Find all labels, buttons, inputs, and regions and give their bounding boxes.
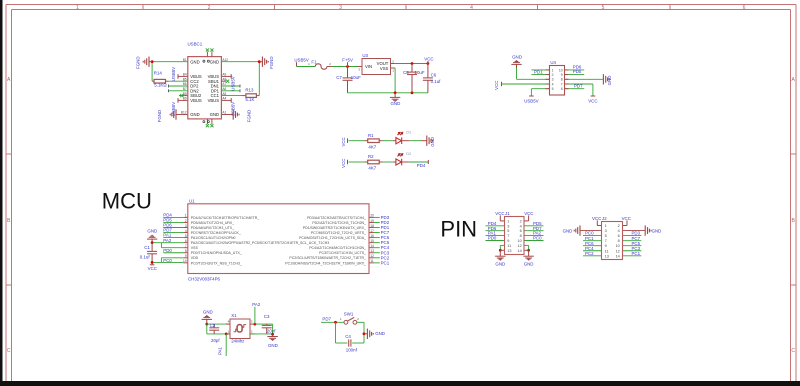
svg-text:14: 14 [370, 244, 374, 248]
svg-text:B4: B4 [183, 73, 187, 77]
svg-text:11: 11 [507, 244, 511, 248]
svg-text:1: 1 [507, 219, 509, 223]
svg-text:GND: GND [512, 54, 522, 59]
svg-text:20pf: 20pf [211, 338, 220, 343]
svg-text:GND: GND [375, 331, 385, 336]
svg-text:4: 4 [185, 229, 187, 233]
svg-text:3: 3 [507, 224, 509, 228]
svg-text:8: 8 [520, 234, 522, 238]
svg-text:4K7: 4K7 [368, 144, 376, 149]
svg-text:9: 9 [561, 73, 563, 77]
svg-text:GND: GND [430, 137, 435, 147]
svg-text:PC7/MISO/T1CH2_T2CH2_URTS_: PC7/MISO/T1CH2_T2CH2_URTS_ [311, 231, 366, 235]
svg-text:U4: U4 [550, 60, 556, 65]
svg-text:FGND: FGND [269, 56, 274, 68]
svg-text:PD4/A7/UCK/T2CH1ETR/OP0/T1CH4E: PD4/A7/UCK/T2CH1ETR/OP0/T1CH4ETR_ [191, 216, 260, 220]
svg-text:2: 2 [618, 224, 620, 228]
svg-text:PA2: PA2 [252, 302, 261, 307]
svg-text:USB5V: USB5V [294, 58, 308, 63]
svg-text:GND: GND [210, 112, 219, 117]
svg-text:C6: C6 [431, 72, 437, 77]
svg-text:VCC: VCC [494, 81, 499, 90]
svg-text:USB5V: USB5V [171, 67, 176, 81]
svg-text:PD1/SWIO/AETR2/T1CH3N/UTX_URX_: PD1/SWIO/AETR2/T1CH3N/UTX_URX_ [303, 226, 366, 230]
svg-text:GND: GND [147, 229, 157, 234]
svg-text:VBUS: VBUS [190, 98, 202, 103]
svg-text:PD7/NRST/T2CH4/OPP1/UCK_: PD7/NRST/T2CH4/OPP1/UCK_ [191, 231, 241, 235]
svg-text:PD4: PD4 [417, 163, 426, 168]
svg-text:4: 4 [520, 224, 522, 228]
svg-text:A5: A5 [222, 92, 226, 96]
svg-text:PC0: PC0 [533, 236, 542, 241]
svg-text:7: 7 [507, 234, 509, 238]
svg-text:SW1: SW1 [344, 312, 354, 317]
svg-text:6: 6 [520, 229, 522, 233]
svg-text:11: 11 [605, 249, 609, 253]
svg-text:A7: A7 [222, 82, 226, 86]
svg-text:5: 5 [605, 234, 607, 238]
svg-text:A8: A8 [222, 77, 226, 81]
svg-text:12: 12 [517, 244, 521, 248]
svg-text:VCC: VCC [495, 211, 504, 216]
svg-text:GND: GND [652, 228, 662, 233]
svg-text:PC3/T1CH3/T1CH1N_UCTS_: PC3/T1CH3/T1CH1N_UCTS_ [319, 251, 366, 255]
svg-text:6: 6 [743, 5, 746, 11]
svg-text:VCC: VCC [424, 56, 433, 61]
svg-text:PC2: PC2 [585, 251, 594, 256]
svg-text:2: 2 [552, 73, 554, 77]
svg-text:VCC: VCC [588, 98, 597, 103]
svg-text:8: 8 [185, 249, 187, 253]
svg-text:GND: GND [210, 59, 219, 64]
svg-text:13: 13 [370, 249, 374, 253]
svg-text:B6: B6 [183, 82, 187, 86]
svg-text:2: 2 [185, 219, 187, 223]
svg-text:VCC: VCC [148, 266, 157, 271]
svg-text:10: 10 [183, 259, 187, 263]
svg-text:3: 3 [552, 78, 554, 82]
svg-text:C3: C3 [264, 314, 270, 319]
svg-text:C8: C8 [403, 70, 409, 75]
svg-text:PC0: PC0 [163, 258, 172, 263]
svg-text:A12: A12 [222, 58, 228, 62]
svg-text:B1: B1 [183, 58, 187, 62]
svg-text:PC0/T2CH3/UTX_NSS_T1CH3_: PC0/T2CH3/UTX_NSS_T1CH3_ [191, 261, 242, 265]
svg-text:B7: B7 [183, 87, 187, 91]
svg-text:10uF: 10uF [351, 75, 361, 80]
svg-text:PA2/OSC0/A0/T1CH2N/OPP0/ASTR2_: PA2/OSC0/A0/T1CH2N/OPP0/ASTR2_PC5/SCK/T1… [191, 241, 329, 245]
svg-text:1: 1 [76, 5, 79, 11]
svg-text:VIN: VIN [365, 64, 372, 69]
svg-text:GND: GND [391, 101, 401, 106]
svg-text:2: 2 [208, 5, 211, 11]
svg-text:PC6/MOSI/T1CH1_T2CH1N_UCTS_SDA: PC6/MOSI/T1CH1_T2CH1N_UCTS_SDA_ [299, 236, 366, 240]
svg-text:2: 2 [520, 219, 522, 223]
svg-text:J2: J2 [602, 216, 607, 221]
svg-text:GND: GND [190, 59, 199, 64]
svg-text:4: 4 [552, 82, 554, 86]
svg-text:5: 5 [552, 87, 554, 91]
svg-text:VSS: VSS [191, 246, 199, 250]
svg-text:0.1uf: 0.1uf [431, 79, 442, 84]
svg-text:USBC1: USBC1 [188, 42, 203, 47]
svg-text:1: 1 [605, 224, 607, 228]
svg-text:5: 5 [185, 234, 187, 238]
svg-text:PA1/OSC1/A1/T1CH2/OPN0: PA1/OSC1/A1/T1CH2/OPN0 [191, 236, 236, 240]
svg-text:PD2/A3/T1CH1/T2CH3_T1CH2N_: PD2/A3/T1CH1/T2CH3_T1CH2N_ [312, 221, 366, 225]
svg-text:PA1: PA1 [218, 346, 223, 355]
svg-text:J1: J1 [505, 211, 510, 216]
svg-text:PD5: PD5 [573, 69, 582, 74]
svg-text:12: 12 [370, 254, 374, 258]
svg-text:16: 16 [370, 234, 374, 238]
svg-text:X1: X1 [231, 313, 237, 318]
svg-text:VCC: VCC [341, 137, 346, 146]
svg-text:PD5/A5/UTX/T2CH4_URX_: PD5/A5/UTX/T2CH4_URX_ [191, 221, 234, 225]
svg-text:7: 7 [561, 82, 563, 86]
svg-text:17: 17 [370, 229, 374, 233]
svg-text:5.1K: 5.1K [245, 97, 254, 102]
svg-text:10: 10 [517, 239, 521, 243]
svg-text:A4: A4 [222, 97, 226, 101]
svg-text:1: 1 [185, 214, 187, 218]
svg-text:MCU: MCU [102, 188, 152, 213]
svg-text:GND: GND [495, 262, 505, 267]
svg-text:13: 13 [605, 254, 609, 258]
svg-text:D1: D1 [406, 131, 411, 135]
svg-text:PIN: PIN [440, 216, 477, 241]
svg-text:0.1uf: 0.1uf [140, 254, 151, 259]
svg-text:19: 19 [370, 219, 374, 223]
svg-text:12: 12 [616, 249, 620, 253]
svg-text:7: 7 [185, 244, 187, 248]
svg-text:7: 7 [605, 239, 607, 243]
svg-text:PD0: PD0 [488, 236, 497, 241]
svg-text:3: 3 [605, 229, 607, 233]
svg-text:PA2: PA2 [163, 238, 172, 243]
svg-text:9: 9 [185, 254, 187, 258]
svg-text:C4: C4 [345, 334, 351, 339]
svg-text:C: C [791, 348, 795, 354]
svg-text:10: 10 [616, 244, 620, 248]
svg-text:A6: A6 [222, 87, 226, 91]
svg-text:8: 8 [618, 239, 620, 243]
svg-text:1: 1 [552, 68, 554, 72]
svg-text:PD0: PD0 [163, 248, 172, 253]
svg-text:11: 11 [370, 259, 374, 263]
svg-text:U1: U1 [189, 199, 195, 204]
svg-text:VCC: VCC [622, 216, 631, 221]
svg-text:FGND: FGND [157, 110, 162, 122]
svg-text:4K7: 4K7 [368, 166, 376, 171]
svg-text:R14: R14 [154, 71, 163, 76]
svg-text:3: 3 [339, 5, 342, 11]
svg-text:B8: B8 [183, 92, 187, 96]
svg-text:8: 8 [561, 78, 563, 82]
svg-text:C1: C1 [144, 245, 150, 250]
svg-text:PC1: PC1 [632, 251, 641, 256]
svg-text:CH32V003F4P6: CH32V003F4P6 [188, 277, 221, 282]
svg-text:14: 14 [616, 254, 620, 258]
svg-text:PC4/A2/T1CH4/MCO/T1CH1CH2N_: PC4/A2/T1CH4/MCO/T1CH1CH2N_ [309, 246, 366, 250]
svg-text:9: 9 [605, 244, 607, 248]
svg-text:C: C [7, 348, 11, 354]
svg-text:VSS: VSS [380, 66, 389, 71]
svg-text:13: 13 [507, 249, 511, 253]
svg-text:PD6/A6/URX/T2CH3_UTX_: PD6/A6/URX/T2CH3_UTX_ [191, 226, 234, 230]
svg-text:PD3/A4/T2CH2/AETR/UCTS/T1CH4_: PD3/A4/T2CH2/AETR/UCTS/T1CH4_ [307, 216, 366, 220]
svg-text:6: 6 [618, 234, 620, 238]
svg-text:GND: GND [524, 262, 534, 267]
svg-text:14: 14 [517, 249, 521, 253]
svg-text:6: 6 [185, 239, 187, 243]
svg-text:GND: GND [607, 76, 612, 86]
svg-text:B9: B9 [183, 97, 187, 101]
svg-text:PD1: PD1 [534, 70, 543, 75]
svg-text:VCC: VCC [341, 159, 346, 168]
svg-text:VCC: VCC [524, 211, 533, 216]
svg-text:20pf: 20pf [267, 329, 276, 334]
svg-text:10: 10 [559, 68, 563, 72]
svg-text:6: 6 [561, 87, 563, 91]
svg-text:100nf: 100nf [346, 347, 358, 352]
svg-text:GND: GND [268, 343, 278, 348]
svg-text:20: 20 [370, 214, 374, 218]
svg-text:F+5V: F+5V [342, 58, 353, 63]
svg-text:A1: A1 [222, 111, 226, 115]
svg-text:5.1KΩ: 5.1KΩ [154, 83, 167, 88]
svg-text:GND: GND [563, 228, 573, 233]
svg-text:FGND: FGND [247, 110, 252, 122]
svg-text:PC1: PC1 [381, 260, 390, 265]
svg-text:USB5V: USB5V [230, 76, 235, 90]
svg-text:PC2/SCL/URTS/T1BKIN/AETR_T2CH2: PC2/SCL/URTS/T1BKIN/AETR_T2CH2_T1ETR_ [289, 256, 366, 260]
svg-text:9: 9 [507, 239, 509, 243]
svg-text:USB5V: USB5V [524, 98, 538, 103]
svg-text:B12: B12 [181, 111, 187, 115]
svg-text:VCC: VCC [592, 216, 601, 221]
svg-text:18: 18 [370, 224, 374, 228]
svg-text:PD7: PD7 [574, 84, 583, 89]
svg-text:GND: GND [203, 310, 213, 315]
svg-text:A9: A9 [222, 73, 226, 77]
svg-text:10uF: 10uF [415, 70, 425, 75]
svg-text:U3: U3 [362, 53, 368, 58]
svg-text:B5: B5 [183, 77, 187, 81]
svg-text:PD7: PD7 [322, 317, 331, 322]
svg-text:5: 5 [507, 229, 509, 233]
svg-text:FGND: FGND [136, 56, 141, 68]
svg-text:GND: GND [190, 112, 199, 117]
svg-text:VBUS: VBUS [208, 98, 220, 103]
svg-text:24Mhz: 24Mhz [231, 339, 244, 344]
svg-text:4: 4 [618, 229, 620, 233]
svg-text:5: 5 [602, 5, 605, 11]
svg-text:D2: D2 [406, 152, 411, 156]
svg-text:F1: F1 [311, 59, 317, 64]
svg-text:PD0/T1CH1N/OPN1/SDA_UTX_: PD0/T1CH1N/OPN1/SDA_UTX_ [191, 251, 242, 255]
svg-text:VDD: VDD [191, 256, 199, 260]
svg-text:15: 15 [370, 239, 374, 243]
svg-text:R13: R13 [245, 88, 254, 93]
svg-text:R1: R1 [368, 133, 374, 138]
svg-text:PC1/SDA/NSS/T2CH4_T2CH1ETR_T1B: PC1/SDA/NSS/T2CH4_T2CH1ETR_T1BKIN_URX_ [285, 261, 366, 265]
svg-text:C2: C2 [210, 323, 216, 328]
svg-text:C7: C7 [336, 75, 342, 80]
svg-text:R2: R2 [368, 154, 374, 159]
svg-text:4: 4 [470, 5, 473, 11]
svg-text:3: 3 [185, 224, 187, 228]
